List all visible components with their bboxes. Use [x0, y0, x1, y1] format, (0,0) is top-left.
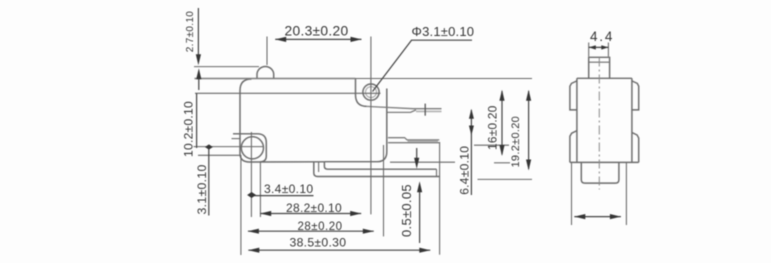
svg-text:3.1±0.10: 3.1±0.10 [195, 164, 209, 214]
svg-text:2.7±0.10: 2.7±0.10 [185, 11, 196, 52]
svg-text:3.4±0.10: 3.4±0.10 [264, 182, 313, 196]
svg-text:10.2±0.10: 10.2±0.10 [182, 101, 196, 157]
svg-text:28±0.20: 28±0.20 [298, 221, 343, 233]
svg-text:28.2±0.10: 28.2±0.10 [286, 201, 342, 215]
svg-text:20.3±0.20: 20.3±0.20 [285, 24, 349, 39]
svg-text:16±0.20: 16±0.20 [485, 105, 499, 150]
svg-text:19.2±0.20: 19.2±0.20 [510, 116, 522, 168]
svg-text:4.4: 4.4 [590, 29, 614, 44]
svg-text:Φ3.1±0.10: Φ3.1±0.10 [412, 24, 475, 39]
svg-text:0.5±0.05: 0.5±0.05 [399, 184, 414, 237]
svg-text:6.4±0.10: 6.4±0.10 [457, 146, 471, 195]
svg-text:38.5±0.30: 38.5±0.30 [290, 235, 347, 249]
